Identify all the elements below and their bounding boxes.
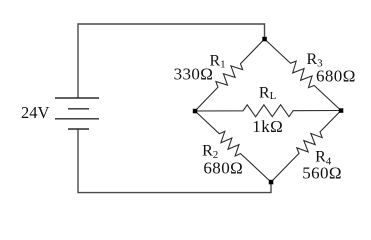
battery V1 short plate 1 bbox=[68, 108, 89, 110]
wire bottom rail from battery - to bottom node bbox=[78, 129, 271, 193]
svg-text:560Ω: 560Ω bbox=[302, 163, 342, 182]
svg-text:330Ω: 330Ω bbox=[174, 65, 214, 84]
svg-text:680Ω: 680Ω bbox=[203, 158, 243, 177]
resistor RL body (left node to right node) bbox=[195, 105, 341, 117]
node A junction dot (top) bbox=[262, 37, 267, 42]
svg-text:24V: 24V bbox=[21, 103, 50, 122]
node C junction dot (right) bbox=[339, 108, 344, 113]
svg-text:RL: RL bbox=[259, 84, 277, 102]
resistor R3 body (top node to right node) bbox=[265, 39, 342, 111]
battery V1 negative short plate bbox=[68, 128, 89, 130]
wire top rail from battery + to top node bbox=[78, 24, 265, 98]
svg-text:1kΩ: 1kΩ bbox=[252, 117, 283, 136]
resistor R2 body (left node to bottom node) bbox=[195, 111, 271, 182]
svg-text:680Ω: 680Ω bbox=[316, 67, 356, 86]
node D junction dot (bottom) bbox=[269, 180, 274, 185]
battery V1 positive long plate bbox=[55, 97, 99, 99]
battery V1 long plate 2 bbox=[55, 118, 99, 120]
resistor R1 body (left node to top node) bbox=[195, 39, 265, 111]
node B junction dot (left) bbox=[193, 109, 198, 114]
resistor R4 body (bottom node to right node) bbox=[271, 111, 341, 183]
